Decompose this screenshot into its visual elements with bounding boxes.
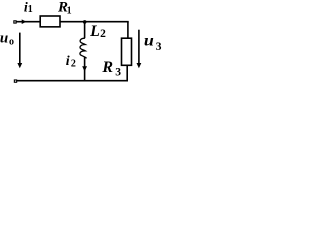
svg-text:i: i bbox=[66, 54, 70, 69]
svg-text:L: L bbox=[89, 23, 100, 40]
svg-text:3: 3 bbox=[156, 41, 162, 53]
svg-text:u: u bbox=[144, 31, 154, 49]
svg-text:1: 1 bbox=[67, 5, 72, 16]
svg-text:u: u bbox=[0, 30, 8, 46]
svg-text:3: 3 bbox=[115, 67, 121, 79]
svg-text:R: R bbox=[101, 59, 113, 76]
svg-text:1: 1 bbox=[28, 4, 33, 15]
svg-text:2: 2 bbox=[100, 28, 106, 40]
svg-text:2: 2 bbox=[71, 59, 76, 70]
svg-text:o: o bbox=[9, 36, 14, 47]
